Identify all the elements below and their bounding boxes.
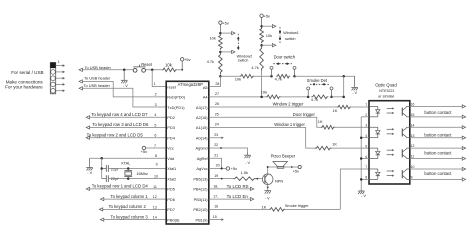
svg-text:Door trigger: Door trigger <box>293 112 316 117</box>
svg-text:18,: 18, <box>213 184 218 188</box>
LED channel 2 of U2 <box>369 127 380 137</box>
power +5v (reset pullup) <box>181 57 191 70</box>
svg-text:A4: A4 <box>203 95 209 100</box>
svg-text:Smoke trigger: Smoke trigger <box>285 204 309 208</box>
ground -V (reset line) <box>121 70 128 88</box>
power +5v (beeper) sideways <box>291 165 301 173</box>
svg-text:PD7: PD7 <box>167 207 175 212</box>
svg-text:20: 20 <box>216 163 220 167</box>
label "To keypad row 3 and LCD D6" <box>92 122 149 127</box>
svg-text:AgGnd: AgGnd <box>195 146 207 151</box>
LED channel 4 of U2 <box>369 169 380 179</box>
resistor 10k (window2) <box>219 34 223 50</box>
wire pin 22 AgGnd to ground <box>209 147 248 152</box>
node junction A4 end <box>342 96 345 99</box>
svg-text:To LCD RS: To LCD RS <box>227 184 249 189</box>
svg-text:3: 3 <box>155 103 157 107</box>
note text "Make connections" <box>6 79 44 84</box>
svg-text:XTAL: XTAL <box>121 161 131 166</box>
node junction w2 top <box>219 32 222 35</box>
wire keypad row net pin 4 <box>86 116 166 119</box>
svg-text:6: 6 <box>154 134 156 138</box>
svg-text:TxD(PD1): TxD(PD1) <box>167 105 185 110</box>
switch Smoke Det (dashed) <box>310 83 330 85</box>
resistor 4.7k (smoke) <box>311 95 328 99</box>
phototransistor channel 3 <box>402 148 410 158</box>
power +5v (window2 chain) <box>219 20 229 33</box>
wire keypad row net pin 5 <box>86 126 166 129</box>
power +5v (AgVcc) sideways <box>226 166 237 171</box>
label pin number 25 <box>215 112 219 116</box>
svg-text:27: 27 <box>215 92 219 96</box>
wire +5v lead <box>177 69 183 71</box>
wire reset-button right segment <box>145 69 162 71</box>
svg-text:1: 1 <box>58 60 60 64</box>
light arrows channel 1 <box>387 107 395 114</box>
phototransistor channel 1 <box>402 106 410 116</box>
label pin number 7 <box>154 144 156 148</box>
node junction pin20/21 <box>221 167 223 169</box>
ground -V (AgGnd) <box>244 152 251 165</box>
label 4.7k (smoke) <box>311 97 318 102</box>
wire Window 2 trigger pin 26 <box>209 106 369 108</box>
pushbutton Reset <box>133 65 145 73</box>
label pin number 16 <box>214 205 218 209</box>
svg-text:Window 1 trigger: Window 1 trigger <box>274 122 305 127</box>
resistor 1K (smoke trigger) <box>269 208 285 212</box>
label pin number 26 <box>215 102 219 106</box>
svg-text:A1(15): A1(15) <box>196 125 208 130</box>
label "To keypad row 4 and LCD D7" <box>91 112 148 117</box>
svg-text:switch: switch <box>285 37 296 41</box>
label "Window 2 trigger" <box>273 102 304 107</box>
label Window1 switch <box>283 31 299 41</box>
wire pin 8 ground <box>90 157 167 159</box>
label pin number 27 <box>215 92 219 96</box>
label pin number 20 <box>216 163 220 167</box>
node junction w1 bottom <box>260 44 263 47</box>
wire keypad row net pin 11 <box>86 187 166 190</box>
wire pin 28 A5 <box>209 76 221 86</box>
svg-text:4: 4 <box>154 113 156 117</box>
svg-text:For serial / USB: For serial / USB <box>11 70 43 75</box>
label pin number 19 <box>214 174 218 178</box>
wire w2 switch bottom <box>220 50 235 53</box>
LED channel 3 of U2 <box>369 148 380 158</box>
wire keypad row net pin 6 <box>86 136 166 139</box>
MCU right pin names <box>193 85 208 222</box>
LED channel 1 of U2 <box>369 106 380 116</box>
label "To USB header" net 1 <box>85 65 112 70</box>
phototransistor channel 4 <box>402 169 410 179</box>
svg-text:28: 28 <box>215 82 219 86</box>
label "To keypad row 2 and LCD D5" <box>87 132 144 137</box>
label "button contact" 3 <box>424 150 452 155</box>
svg-text:22: 22 <box>214 143 218 147</box>
label "To keypad column 1" <box>111 194 149 199</box>
svg-text:4.7k: 4.7k <box>207 59 214 64</box>
svg-text:1K: 1K <box>262 204 267 209</box>
label 16Mhz <box>136 171 148 176</box>
wire bus mid segment <box>254 75 272 77</box>
wire beeper rail <box>268 166 298 168</box>
svg-text:- V: - V <box>265 196 270 200</box>
label 4.7k (window1 low) <box>251 65 258 70</box>
ground -V (bus end) <box>351 76 358 95</box>
label 22pf (C2) <box>111 176 119 181</box>
svg-text:+5v: +5v <box>293 168 300 173</box>
svg-text:1K: 1K <box>333 108 338 113</box>
svg-text:PB5(13): PB5(13) <box>193 176 208 181</box>
svg-text:12: 12 <box>411 144 415 148</box>
wire pin 23 stub <box>209 136 224 139</box>
svg-text:10: 10 <box>154 174 158 178</box>
svg-text:PB1(9): PB1(9) <box>195 217 208 222</box>
label 4.7k (window2 low) <box>207 59 214 64</box>
label 1K (w1 trig) <box>332 141 337 146</box>
light arrows channel 2 <box>387 128 395 135</box>
ground -V (opto bus) <box>358 189 366 198</box>
svg-text:4.7k: 4.7k <box>275 77 282 82</box>
svg-text:17,: 17, <box>213 195 218 199</box>
node junction A4/w1chain <box>260 96 263 99</box>
svg-text:+5v: +5v <box>222 20 229 25</box>
svg-text:+5v: +5v <box>231 166 238 171</box>
capacitor C2 22pf <box>102 175 109 182</box>
svg-text:4: 4 <box>365 134 367 138</box>
svg-text:Vdd: Vdd <box>167 156 174 161</box>
node junction cap A <box>100 167 103 170</box>
label 10k (reset pullup) <box>165 62 173 67</box>
label pin number 14 <box>153 215 157 219</box>
label pin number 3 <box>155 103 157 107</box>
label Window2 switch <box>237 55 253 63</box>
power +5v (Vcc) sideways <box>141 146 148 154</box>
MCU left pin names <box>167 84 185 222</box>
svg-text:11: 11 <box>411 155 415 159</box>
resistor 4.7k (door) <box>276 74 290 78</box>
light arrows channel 4 <box>387 170 395 177</box>
label pin number 22 <box>214 143 218 147</box>
svg-text:A0(14): A0(14) <box>196 135 208 140</box>
node junction door left <box>270 75 273 78</box>
label Optic Quad <box>375 83 397 88</box>
svg-text:13: 13 <box>411 134 415 138</box>
node junction reset/ground <box>123 69 126 72</box>
svg-text:2: 2 <box>365 113 367 117</box>
svg-text:or similar: or similar <box>378 93 395 98</box>
wire pin 10 Xtal2 <box>108 178 166 180</box>
label 1K (smoke trig) <box>262 204 267 209</box>
svg-text:15: 15 <box>213 215 217 219</box>
svg-text:For your hardware: For your hardware <box>5 85 43 90</box>
svg-text:1: 1 <box>365 103 367 107</box>
svg-text:23: 23 <box>214 133 218 137</box>
wire base lead <box>256 178 262 180</box>
svg-text:Reset: Reset <box>141 62 153 67</box>
terminal door switch left <box>270 66 273 76</box>
resistor 4.7k (window2 low) <box>219 53 223 74</box>
wire To-USB-header-3 to pin 3 <box>79 87 166 107</box>
ground -V (emitter) <box>264 190 271 201</box>
wire drop to smoke line <box>343 76 345 97</box>
label 10k (window2) <box>210 36 216 41</box>
node junction collector/beeper <box>267 166 269 168</box>
svg-text:9: 9 <box>411 176 413 180</box>
wire pin 19 PB5 <box>209 178 233 180</box>
wire keypad column net pin 13 <box>99 208 166 211</box>
label pin number 9 <box>156 162 158 166</box>
wire pin 7 Vcc <box>146 147 166 149</box>
transistor Q1 NPN <box>262 174 273 185</box>
svg-text:To USB header: To USB header <box>85 65 112 70</box>
label pin number 10 <box>154 174 158 178</box>
svg-text:Window 2 trigger: Window 2 trigger <box>273 102 304 107</box>
label "button contact" 4 <box>424 171 452 176</box>
wire w2 switch top <box>220 32 235 35</box>
wire pin 21 AgRef <box>209 158 222 168</box>
wire w2 chain to bus <box>219 74 221 76</box>
svg-text:+5v: +5v <box>264 14 271 19</box>
terminal smoke det right <box>330 87 333 97</box>
svg-text:14: 14 <box>411 123 415 127</box>
resistor 1K (window2 trigger) <box>337 105 351 109</box>
svg-text:A2(16): A2(16) <box>196 115 208 120</box>
svg-text:8: 8 <box>365 176 367 180</box>
svg-text:1: 1 <box>154 82 156 86</box>
light arrows channel 3 <box>387 149 395 156</box>
label 1.5k <box>241 170 248 175</box>
opto-isolator U2 box <box>369 101 410 184</box>
speaker Pizeo Beeper symbol <box>273 162 288 169</box>
resistor 1K (door trigger) <box>321 125 335 129</box>
svg-text:10k: 10k <box>261 90 267 95</box>
label "button contact" 1 <box>424 110 452 115</box>
label pin number 8 <box>155 154 157 158</box>
label "button contact" 2 <box>424 132 452 137</box>
svg-text:A5: A5 <box>203 85 208 90</box>
svg-text:- V: - V <box>352 91 357 95</box>
label "To LCD En" <box>227 194 249 199</box>
svg-text:To keypad row 2 and LCD D5: To keypad row 2 and LCD D5 <box>87 132 144 137</box>
svg-text:10k: 10k <box>266 33 272 38</box>
svg-text:15: 15 <box>411 113 415 117</box>
svg-text:6: 6 <box>365 155 367 159</box>
svg-text:To keypad row 3 and LCD D6: To keypad row 3 and LCD D6 <box>92 122 149 127</box>
svg-text:Pizeo Beeper: Pizeo Beeper <box>271 154 296 159</box>
resistor 10k (reset pullup) <box>162 68 177 72</box>
svg-text:PD6: PD6 <box>167 197 175 202</box>
svg-text:- V: - V <box>123 84 128 88</box>
svg-text:5: 5 <box>154 123 156 127</box>
op-amp U1 ATmega328P body <box>166 81 209 224</box>
node junction smoke right <box>330 96 333 99</box>
wire button contact 4a <box>410 167 466 170</box>
node junctions opto bus <box>360 136 363 180</box>
label NPN <box>275 178 283 183</box>
svg-text:12: 12 <box>153 195 157 199</box>
label 22pf (C1) <box>111 167 119 172</box>
wire button contact 3a <box>410 147 466 150</box>
wire button contact 1a <box>410 105 466 108</box>
label Door switch <box>274 55 296 60</box>
label or similar <box>378 93 395 98</box>
svg-text:button contact: button contact <box>424 150 452 155</box>
svg-text:- V: - V <box>87 171 92 175</box>
label 10k (bus) <box>235 77 241 82</box>
node junction reset/pin1 <box>151 69 154 72</box>
label "To keypad column 2" <box>109 204 147 209</box>
svg-text:AgVcc: AgVcc <box>196 166 207 171</box>
label "To keypad row 1 and LCD D4" <box>92 184 149 189</box>
wire button contact 3b <box>410 157 466 160</box>
wire keypad column net pin 14 <box>100 218 166 221</box>
svg-text:reset: reset <box>167 84 177 89</box>
svg-text:2: 2 <box>155 93 157 97</box>
wire opto cathode bus <box>360 117 362 190</box>
wire Door trigger pin 25 <box>209 117 369 127</box>
label pin number 2 <box>155 93 157 97</box>
label pin number 21 <box>214 153 218 157</box>
svg-text:26: 26 <box>215 102 219 106</box>
wire A4 mid <box>281 96 309 98</box>
svg-text:To USB header: To USB header <box>84 83 111 88</box>
resistor 10k (A4) <box>266 95 281 99</box>
svg-text:11: 11 <box>153 185 157 189</box>
label pin number 17 <box>213 195 218 199</box>
label ATmega328P <box>178 82 204 87</box>
wire cap ground bus <box>101 158 103 178</box>
svg-text:To keypad column 1: To keypad column 1 <box>111 194 149 199</box>
label NTE3221 <box>379 89 394 93</box>
svg-text:To LCD En: To LCD En <box>227 194 249 199</box>
svg-text:13: 13 <box>153 205 157 209</box>
label 1K (door trig) <box>318 119 323 124</box>
svg-text:Smoke Det: Smoke Det <box>307 78 328 83</box>
svg-text:Xtal1: Xtal1 <box>167 166 176 171</box>
svg-text:Vcc: Vcc <box>167 146 174 151</box>
svg-text:Optic Quad: Optic Quad <box>375 83 397 88</box>
svg-text:+5v: +5v <box>184 57 191 62</box>
label pin number 28 <box>215 82 219 86</box>
wire Window 1 trigger pin 24 <box>209 128 369 149</box>
wire To-USB-header-1 <box>79 68 133 71</box>
wire button contact 1b <box>410 115 466 118</box>
wire emitter down <box>267 185 269 190</box>
svg-text:10: 10 <box>411 165 415 169</box>
svg-text:- V: - V <box>245 161 250 165</box>
wire bus right segment <box>295 75 355 77</box>
label "Door trigger" <box>293 112 316 117</box>
svg-text:NPN: NPN <box>275 178 283 183</box>
svg-text:10k: 10k <box>235 77 241 82</box>
capacitor C1 22pf <box>102 165 109 172</box>
svg-text:3: 3 <box>365 123 367 127</box>
node junction smoke left <box>307 96 310 99</box>
label 1K (w2 trig) <box>333 108 338 113</box>
node junction chain/bus/A5 <box>219 75 222 78</box>
label "To LCD RS" <box>227 184 249 189</box>
svg-text:PD2: PD2 <box>167 115 175 120</box>
label Pizeo Beeper <box>271 154 296 159</box>
wire pin 18 To LCD RS <box>209 187 254 190</box>
resistor 4.7k (window1 low) <box>260 46 264 70</box>
label 10k (window1) <box>266 33 272 38</box>
svg-text:PD3: PD3 <box>167 125 175 130</box>
svg-text:10k: 10k <box>210 36 216 41</box>
svg-text:- V: - V <box>361 194 366 198</box>
svg-text:AgRef: AgRef <box>197 156 209 161</box>
note text "For your hardware" <box>5 85 43 90</box>
svg-text:button contact: button contact <box>424 171 452 176</box>
wire w1 chain down to A4 line <box>261 71 263 97</box>
label 4.7k (door) <box>275 77 282 82</box>
node junction cap bus top <box>100 157 103 160</box>
wire pin 20 AgVcc <box>209 167 226 169</box>
power +5v (window1 chain) <box>260 14 270 27</box>
wire w1 switch top <box>262 25 276 28</box>
svg-text:7: 7 <box>154 144 156 148</box>
label "To USB header" net 2 <box>84 76 111 81</box>
label pin number 15 <box>213 215 217 219</box>
svg-text:To keypad column 3: To keypad column 3 <box>111 214 149 219</box>
svg-text:5: 5 <box>365 144 367 148</box>
svg-text:Xtal2: Xtal2 <box>167 176 176 181</box>
node junction door right <box>293 75 296 78</box>
resistor 1K (window1 trigger) <box>315 146 331 150</box>
node junction w2 bottom <box>219 51 222 54</box>
label Smoke Det <box>307 78 328 83</box>
wire button contact 4b <box>410 178 466 181</box>
label XTAL <box>121 161 131 166</box>
svg-text:To keypad row 4 and LCD D7: To keypad row 4 and LCD D7 <box>91 112 148 117</box>
label "Reset" <box>141 62 153 67</box>
resistor 10k (window1) <box>260 27 264 43</box>
label "Smoke trigger" <box>285 204 309 208</box>
label pin number 13 <box>153 205 157 209</box>
wire pin 15 stub <box>209 218 224 221</box>
svg-text:9: 9 <box>156 162 158 166</box>
svg-text:PB4(12): PB4(12) <box>193 187 208 192</box>
ground -V (crystal) <box>86 158 93 175</box>
connector J1 5-pin header <box>50 63 55 94</box>
svg-text:PD5: PD5 <box>167 187 175 192</box>
svg-text:PB2(10): PB2(10) <box>193 207 208 212</box>
label pin 1 of header <box>58 60 60 64</box>
svg-text:PB3(11): PB3(11) <box>194 197 209 202</box>
svg-text:button contact: button contact <box>424 132 452 137</box>
svg-text:NTE3221: NTE3221 <box>379 89 394 93</box>
svg-text:A3(17): A3(17) <box>196 105 208 110</box>
svg-text:19: 19 <box>214 174 218 178</box>
terminal smoke det left <box>307 87 310 97</box>
svg-text:To keypad column 2: To keypad column 2 <box>109 204 147 209</box>
svg-text:24: 24 <box>215 123 219 127</box>
svg-text:switch: switch <box>238 58 249 62</box>
svg-text:16: 16 <box>411 103 415 107</box>
note text "For serial / USB" <box>11 70 43 75</box>
label pin number 4 <box>154 113 156 117</box>
wire pin 17 To LCD En <box>209 198 254 201</box>
label 10k (A4) <box>261 90 267 95</box>
label pin number 5 <box>154 123 156 127</box>
header pin stubs with arrows <box>56 64 65 92</box>
label pin number 1 <box>154 82 156 86</box>
svg-text:To keypad row 1 and LCD D4: To keypad row 1 and LCD D4 <box>92 184 149 189</box>
wire collector up <box>267 167 269 174</box>
switch Window2 (dashed) <box>237 34 239 51</box>
svg-text:PD4: PD4 <box>167 135 175 140</box>
